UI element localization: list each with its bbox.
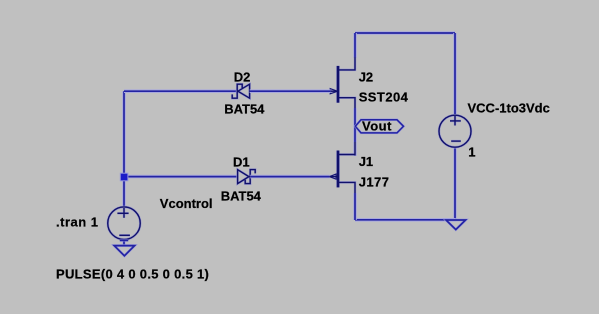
svg-text:J2: J2 xyxy=(359,69,373,84)
wire top rail to J2 drain xyxy=(353,33,357,58)
wire J1 source to ground rail xyxy=(353,193,357,220)
ground (left) xyxy=(114,246,134,256)
wire D1 row left segment xyxy=(124,175,238,179)
wire J2 source to J1 drain xyxy=(353,108,357,156)
svg-text:SST204: SST204 xyxy=(359,89,409,104)
wire left riser (junction to D2 row) xyxy=(122,91,126,176)
svg-text:PULSE(0 4 0 0.5 0 0.5 1): PULSE(0 4 0 0.5 0 0.5 1) xyxy=(56,266,209,281)
wire D2 row left segment xyxy=(124,89,237,93)
svg-text:Vcontrol: Vcontrol xyxy=(160,196,213,211)
wire V2 to ground rail xyxy=(453,147,457,220)
svg-text:BAT54: BAT54 xyxy=(224,101,265,116)
svg-text:VCC-1to3Vdc: VCC-1to3Vdc xyxy=(468,101,550,116)
svg-text:.tran 1: .tran 1 xyxy=(56,214,99,229)
diode D1 (BAT54 schottky, cathode right) xyxy=(238,170,256,184)
svg-text:J1: J1 xyxy=(359,154,373,169)
wire V1 bottom stub xyxy=(122,240,126,246)
junction node on Vcontrol net xyxy=(120,173,129,182)
wire junction down to V1 xyxy=(122,177,126,208)
wire bottom ground rail xyxy=(355,218,456,222)
ground (right) xyxy=(446,220,466,230)
wire D1 to J1 gate xyxy=(250,175,329,179)
svg-text:D2: D2 xyxy=(234,70,251,85)
voltage source V2 (VCC) xyxy=(439,115,471,147)
svg-text:J177: J177 xyxy=(359,175,390,190)
svg-text:1: 1 xyxy=(468,145,475,160)
svg-text:D1: D1 xyxy=(233,154,250,169)
wire top rail xyxy=(355,31,455,35)
pin tick at V1 minus lead xyxy=(120,239,128,241)
voltage source V1 (Vcontrol) xyxy=(108,207,141,240)
transistor J2 (SST204 n-JFET) xyxy=(330,57,355,110)
diode D2 (BAT54 schottky, cathode left) xyxy=(232,84,249,98)
net flag Vout xyxy=(355,119,403,134)
wire right drop to V2 xyxy=(453,33,457,116)
transistor J1 (J177 p-JFET) xyxy=(329,142,355,195)
wire D2 to J2 gate xyxy=(250,89,331,93)
svg-text:BAT54: BAT54 xyxy=(221,188,262,203)
svg-text:Vout: Vout xyxy=(362,119,392,134)
